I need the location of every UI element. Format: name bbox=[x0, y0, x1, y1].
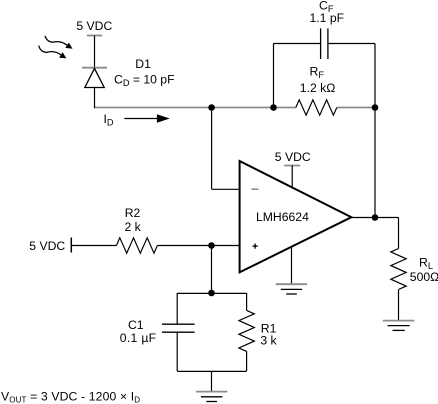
svg-text:3 k: 3 k bbox=[260, 334, 277, 348]
svg-text:500Ω: 500Ω bbox=[410, 270, 438, 284]
svg-text:2 k: 2 k bbox=[125, 220, 142, 234]
svg-text:0.1 µF: 0.1 µF bbox=[120, 331, 157, 345]
svg-text:R2: R2 bbox=[125, 206, 141, 220]
svg-text:1.1 pF: 1.1 pF bbox=[310, 11, 345, 25]
svg-text:C1: C1 bbox=[128, 318, 144, 332]
svg-text:5 VDC: 5 VDC bbox=[275, 150, 311, 164]
svg-text:D1: D1 bbox=[135, 57, 151, 71]
svg-text:5 VDC: 5 VDC bbox=[29, 239, 65, 253]
svg-text:5 VDC: 5 VDC bbox=[76, 19, 112, 33]
svg-text:LMH6624: LMH6624 bbox=[256, 210, 309, 224]
svg-text:1.2 kΩ: 1.2 kΩ bbox=[300, 81, 336, 95]
